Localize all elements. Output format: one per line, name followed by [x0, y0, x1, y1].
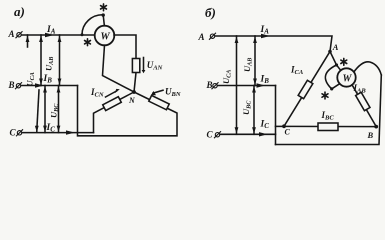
- svg-text:B: B: [367, 130, 374, 140]
- voltage arrow U_AB shaft1: [40, 35, 42, 86]
- asterisk current coil a: [85, 39, 91, 46]
- wire line C: [23, 132, 94, 134]
- current arrow I_C2: [259, 132, 268, 136]
- branch C-A: [284, 52, 330, 127]
- current arrow I_C: [66, 130, 75, 134]
- node N: [132, 90, 136, 94]
- label I_A2: [260, 25, 270, 36]
- current arrow I_B2: [257, 83, 266, 87]
- branch N to B rail: [78, 86, 178, 136]
- current arrow I_CN: [106, 91, 117, 97]
- wire line C2: [221, 133, 276, 135]
- label node N: [128, 96, 136, 105]
- vertex A dot: [328, 50, 332, 54]
- svg-text:C: C: [207, 130, 214, 140]
- resistor Z_BC: [318, 123, 338, 131]
- label U_AB2: [242, 58, 253, 72]
- wire line B2 down to C vertex: [218, 85, 276, 87]
- branch bottom C-B: [284, 125, 376, 127]
- svg-text:W: W: [343, 74, 353, 85]
- resistor Z_AB: [356, 92, 370, 110]
- svg-text:C: C: [285, 128, 291, 137]
- svg-text:A: A: [198, 32, 205, 42]
- label I_A: [46, 25, 56, 36]
- label a): [14, 4, 25, 19]
- label I_AB: [353, 83, 367, 95]
- top terminal dot: [102, 13, 105, 16]
- asterisk current coil b: [341, 58, 347, 65]
- label I_BC: [321, 110, 335, 122]
- voltage arrow U_AN: [143, 58, 145, 71]
- label U_CA: [25, 72, 36, 86]
- label b): [205, 5, 216, 20]
- stub to wattmeter top: [103, 15, 104, 26]
- label vertex C: [285, 128, 291, 137]
- svg-text:A: A: [8, 29, 15, 39]
- wire line A: [22, 34, 95, 36]
- terminal A: [8, 29, 15, 39]
- voltage arrow U_CA2: [236, 36, 238, 134]
- terminal B: [8, 80, 15, 90]
- current arrow I_A2: [261, 34, 270, 38]
- stub dot2 to circle: [332, 84, 340, 89]
- svg-text:а): а): [14, 4, 25, 19]
- voltage coil arc b: [325, 65, 336, 89]
- vertex B dot: [374, 125, 378, 129]
- current arrow I_B: [35, 83, 44, 87]
- vertex C dot: [282, 124, 286, 128]
- voltage arrow U_BC shaft1: [44, 86, 46, 133]
- svg-text:IB: IB: [43, 74, 53, 85]
- resistor Z_C (diagonal): [103, 97, 122, 111]
- label U_AB: [44, 57, 55, 71]
- label I_B: [43, 74, 53, 85]
- resistor Z_B (diagonal): [149, 95, 169, 109]
- node dot on line A: [81, 33, 84, 36]
- svg-text:C: C: [10, 128, 17, 138]
- wire W1 bottom to N: [103, 45, 135, 92]
- terminal B2: [206, 80, 213, 90]
- label U_AN: [147, 60, 163, 72]
- label vertex A: [332, 42, 339, 52]
- svg-text:IC: IC: [260, 120, 270, 131]
- svg-text:A: A: [332, 42, 339, 52]
- svg-text:W: W: [100, 32, 110, 43]
- svg-text:IB: IB: [260, 75, 270, 86]
- current arrow I_A: [45, 33, 54, 38]
- voltage coil arch b: [354, 62, 382, 75]
- dot2: [330, 87, 333, 90]
- label I_C2: [260, 120, 270, 131]
- dot1: [335, 63, 338, 66]
- label I_B2: [260, 75, 270, 86]
- resistor Z_CA: [298, 80, 313, 98]
- label U_BC: [49, 103, 60, 118]
- label I_CA: [290, 65, 304, 77]
- wattmeter W2: [337, 68, 355, 86]
- asterisk voltage coil a: [101, 4, 107, 11]
- svg-text:B: B: [8, 80, 15, 90]
- wire W1 right to corner: [114, 35, 136, 59]
- label U_BC2: [241, 100, 252, 115]
- svg-text:IA: IA: [260, 25, 270, 36]
- stub to C vertex: [276, 125, 285, 127]
- branch N to C corner: [94, 92, 135, 133]
- voltage arrow U_BN: [153, 90, 163, 93]
- series wire A to W2: [330, 52, 341, 71]
- label U_CA2: [221, 70, 232, 84]
- voltage arrow U_CA (broken for label): [27, 35, 29, 47]
- voltage coil arc a: [82, 15, 103, 35]
- label I_CN: [90, 87, 104, 99]
- svg-text:IA: IA: [46, 25, 56, 36]
- resistor Z_A: [132, 59, 139, 73]
- label vertex B: [367, 130, 374, 140]
- svg-text:IC: IC: [46, 123, 56, 134]
- label U_BN: [165, 87, 181, 99]
- terminal C2: [207, 130, 214, 140]
- asterisk voltage coil b: [322, 92, 328, 99]
- wire resistor to N: [134, 73, 136, 93]
- voltage arrow U_AB2: [254, 36, 256, 86]
- terminal A2: [198, 32, 205, 42]
- bottom return wire: [276, 75, 382, 145]
- wire line B: [22, 85, 78, 87]
- wattmeter W1: [95, 26, 115, 46]
- terminal C: [10, 128, 17, 138]
- label I_C: [46, 123, 56, 134]
- voltage arrow U_BC2: [253, 86, 255, 135]
- wire line A2: [216, 36, 333, 52]
- voltage arrow U_AB shaft2: [59, 35, 61, 86]
- voltage arrow U_BC shaft2: [58, 86, 60, 133]
- series wire W2 to B: [352, 85, 376, 127]
- svg-text:б): б): [205, 5, 216, 20]
